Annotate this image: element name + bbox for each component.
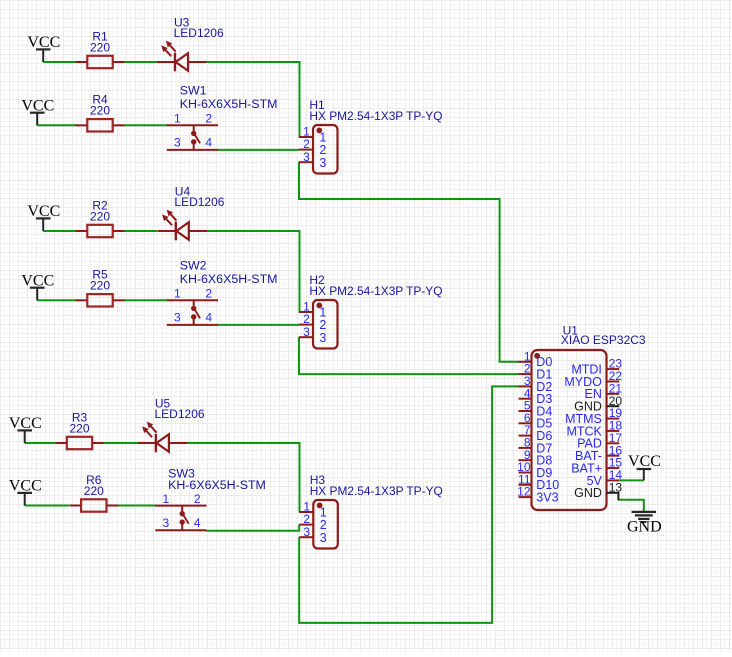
svg-text:1: 1 — [174, 287, 181, 301]
svg-text:3: 3 — [303, 150, 310, 164]
svg-text:KH-6X6X5H-STM: KH-6X6X5H-STM — [180, 272, 278, 286]
svg-text:3: 3 — [303, 525, 310, 539]
svg-text:GND: GND — [627, 519, 662, 536]
svg-text:LED1206: LED1206 — [174, 195, 224, 209]
svg-text:LED1206: LED1206 — [155, 407, 205, 421]
svg-text:3: 3 — [319, 331, 326, 345]
svg-text:SW1: SW1 — [180, 83, 207, 97]
svg-text:4: 4 — [205, 311, 212, 325]
svg-text:13: 13 — [609, 480, 623, 494]
svg-text:LED1206: LED1206 — [174, 26, 224, 40]
svg-text:VCC: VCC — [9, 478, 42, 495]
svg-text:VCC: VCC — [27, 34, 60, 51]
svg-text:VCC: VCC — [9, 415, 42, 432]
svg-text:VCC: VCC — [21, 272, 54, 289]
svg-text:HX PM2.54-1X3P TP-YQ: HX PM2.54-1X3P TP-YQ — [309, 109, 442, 123]
svg-text:220: 220 — [84, 484, 104, 498]
svg-text:2: 2 — [205, 112, 212, 126]
svg-text:1: 1 — [174, 112, 181, 126]
svg-text:SW2: SW2 — [180, 258, 207, 272]
svg-text:3: 3 — [319, 156, 326, 170]
svg-text:VCC: VCC — [21, 97, 54, 114]
svg-text:2: 2 — [205, 287, 212, 301]
svg-text:GND: GND — [574, 486, 602, 500]
svg-text:12: 12 — [517, 485, 531, 499]
svg-text:VCC: VCC — [27, 203, 60, 220]
svg-text:220: 220 — [90, 209, 110, 223]
svg-text:220: 220 — [90, 40, 110, 54]
svg-text:220: 220 — [90, 104, 110, 118]
svg-text:1: 1 — [162, 492, 169, 506]
svg-text:2: 2 — [194, 492, 201, 506]
svg-text:3: 3 — [174, 136, 181, 150]
svg-text:3: 3 — [303, 325, 310, 339]
svg-text:3: 3 — [320, 531, 327, 545]
svg-text:220: 220 — [90, 279, 110, 293]
svg-text:3V3: 3V3 — [536, 491, 558, 505]
svg-text:4: 4 — [205, 136, 212, 150]
svg-text:HX PM2.54-1X3P TP-YQ: HX PM2.54-1X3P TP-YQ — [309, 284, 442, 298]
svg-text:220: 220 — [69, 421, 89, 435]
svg-text:KH-6X6X5H-STM: KH-6X6X5H-STM — [168, 478, 266, 492]
svg-text:KH-6X6X5H-STM: KH-6X6X5H-STM — [180, 97, 278, 111]
svg-text:3: 3 — [162, 516, 169, 530]
svg-text:4: 4 — [194, 516, 201, 530]
svg-text:VCC: VCC — [628, 453, 661, 470]
svg-text:XIAO ESP32C3: XIAO ESP32C3 — [561, 333, 646, 347]
svg-text:3: 3 — [174, 311, 181, 325]
svg-text:HX PM2.54-1X3P TP-YQ: HX PM2.54-1X3P TP-YQ — [310, 484, 443, 498]
